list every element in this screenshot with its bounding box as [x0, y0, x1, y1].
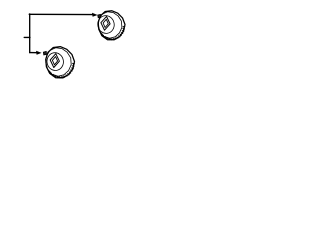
wheel center cap A (lower left)	[43, 47, 74, 79]
cap A face edge	[46, 48, 71, 77]
wire: bottom horizontal leader to cap A	[30, 52, 38, 54]
cap A outer rim	[46, 47, 75, 78]
cap A inner ring	[46, 51, 65, 71]
cap A mounting tab	[43, 51, 46, 55]
cap B mounting tab	[98, 14, 101, 17]
cap B diamond emblem inner	[103, 19, 108, 27]
cap B rim thickness line	[102, 26, 124, 39]
wheel center cap B (upper right)	[96, 11, 125, 40]
wire: vertical leader line	[29, 14, 31, 53]
cap A diamond emblem inner	[52, 57, 57, 65]
wire: top horizontal leader to cap B	[29, 13, 93, 15]
cap B inner ring	[96, 14, 115, 34]
cap A rim hatch marks	[49, 63, 74, 78]
cap A rim thickness line	[49, 64, 73, 78]
arrowhead to cap A	[36, 51, 42, 55]
arrowhead to cap B	[92, 13, 98, 17]
cap B outer rim	[98, 11, 125, 40]
cap B face edge	[98, 12, 122, 39]
cap B rim hatch marks	[101, 26, 125, 40]
cap A diamond emblem outer	[50, 54, 59, 68]
cap B diamond emblem outer	[101, 16, 110, 30]
leader tick (part number stub)	[24, 36, 30, 38]
